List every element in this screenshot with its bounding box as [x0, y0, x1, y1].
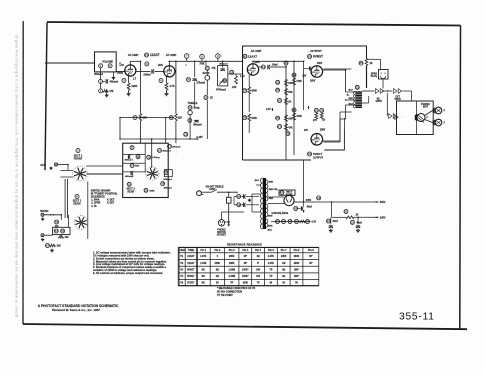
rectifier tube V5	[284, 195, 294, 205]
wire between connector pairs	[384, 90, 393, 92]
frame right border	[459, 26, 462, 330]
svg-text:20mf: 20mf	[333, 221, 338, 223]
rotary switch SW1 rear	[80, 222, 82, 224]
svg-text:6V6GT: 6V6GT	[313, 152, 322, 156]
svg-text:2.4V: 2.4V	[266, 108, 271, 111]
svg-text:40mf: 40mf	[357, 221, 362, 224]
resistor R13 56K	[130, 164, 134, 168]
ground V1b cathode	[166, 92, 168, 94]
T2 cref	[355, 85, 359, 89]
svg-text:40*: 40*	[309, 255, 313, 258]
svg-text:RED: RED	[349, 98, 354, 100]
svg-text:40*: 40*	[244, 262, 248, 265]
svg-text:SOCKET: SOCKET	[217, 235, 227, 237]
T2 secondary wire	[362, 90, 375, 92]
svg-text:400mmf: 400mmf	[125, 175, 133, 178]
volume pot R2	[108, 64, 112, 68]
svg-text:1K: 1K	[210, 98, 213, 100]
hum balance pot	[300, 220, 306, 222]
resistor R57 10K	[46, 244, 50, 248]
svg-text:1. 600A: 1. 600A	[91, 199, 99, 202]
svg-text:400mmf: 400mmf	[172, 145, 180, 148]
coupling capacitor C14 .02mf	[259, 66, 262, 68]
resistor R10 22K in bus	[169, 116, 173, 120]
resistor R35 2K in box edge	[359, 61, 363, 65]
svg-text:220K: 220K	[132, 85, 138, 88]
triode V2a phase inverter	[247, 64, 258, 75]
svg-text:285V: 285V	[320, 130, 326, 132]
svg-text:NC: NC	[202, 276, 206, 278]
svg-text:50K: 50K	[288, 92, 293, 94]
T2 feed bus	[345, 70, 347, 92]
T2 secondary return	[362, 102, 369, 104]
svg-text:280*: 280*	[294, 269, 299, 271]
wire V4 plate to T2	[323, 140, 340, 142]
T1 primary coil	[261, 178, 263, 229]
svg-text:1.04K: 1.04K	[200, 262, 207, 265]
svg-text:355-11: 355-11	[399, 312, 435, 323]
resistor R23 30K	[276, 80, 280, 84]
svg-text:12AX7: 12AX7	[187, 262, 195, 265]
wire treble down	[189, 115, 191, 139]
output tube V3	[311, 66, 323, 78]
svg-text:6.3V: 6.3V	[312, 221, 317, 223]
speaker connector pair 2	[394, 89, 398, 94]
bus line 1	[285, 65, 287, 160]
svg-text:6. All controls at minimum,: 6. All controls at minimum, proper outpu…	[93, 271, 163, 275]
filter cap C20 40mf	[294, 207, 298, 211]
frame top border	[47, 22, 461, 26]
rectifier label box	[279, 190, 295, 195]
resistor R26 10K	[276, 116, 280, 120]
svg-text:220K: 220K	[215, 263, 221, 265]
ground C22	[357, 229, 359, 231]
resistor R29 470K	[292, 73, 296, 77]
feedback wire to phono connector	[386, 93, 388, 116]
trimmer C14 4700mmf	[223, 79, 227, 83]
resistor R15 1.5meg	[147, 155, 151, 159]
arrow 2.4V	[271, 108, 273, 111]
svg-text:30K: 30K	[288, 83, 293, 85]
capacitor C7 on tone row	[184, 54, 189, 59]
cref C19 below	[161, 182, 165, 186]
svg-text:265V: 265V	[310, 81, 316, 83]
cathode resistor R5	[122, 79, 126, 83]
svg-text:15K: 15K	[143, 118, 148, 120]
AC wire with switch	[204, 191, 212, 193]
svg-text:1.07K: 1.07K	[268, 263, 275, 265]
left tone bus with C10 270mmf	[194, 61, 196, 77]
wires tubes to transformer	[324, 68, 352, 70]
wire pair2 to phono box	[403, 90, 412, 92]
svg-text:280K: 280K	[229, 263, 235, 265]
svg-text:40*: 40*	[244, 255, 248, 258]
svg-text:SEQUENCE:: SEQUENCE:	[91, 195, 106, 198]
svg-text:1M: 1M	[282, 263, 285, 265]
svg-text:FRONT: FRONT	[74, 157, 83, 160]
svg-text:Pin 3: Pin 3	[229, 249, 235, 252]
svg-text:BASS: BASS	[203, 72, 210, 75]
output tube V4	[311, 134, 323, 146]
B+ node 345V	[303, 201, 304, 202]
B+ rail 245V	[332, 216, 347, 218]
screen supply bus	[303, 160, 305, 202]
right connector 2	[435, 119, 442, 126]
volume pot R1	[99, 64, 103, 68]
T1 to rectifier wires	[268, 196, 284, 198]
page bottom edge line	[23, 324, 467, 329]
svg-text:V1: V1	[145, 53, 149, 57]
svg-text:1.5V: 1.5V	[240, 76, 245, 78]
svg-text:335V: 335V	[380, 201, 386, 204]
svg-text:Pin 7: Pin 7	[281, 249, 287, 252]
svg-text:5. DET: 5. DET	[107, 203, 115, 205]
plate wire V1b to tone row	[168, 61, 170, 66]
wire input to volume box	[45, 62, 95, 64]
resistor R9 15K in bus	[133, 116, 137, 120]
svg-text:0*: 0*	[257, 263, 259, 265]
cref C16 right top	[158, 148, 162, 152]
svg-text:VOLUME: VOLUME	[102, 60, 113, 64]
T2 primary leads	[346, 91, 356, 93]
svg-text:V2: V2	[243, 54, 247, 58]
svg-text:1.5V: 1.5V	[119, 65, 124, 67]
resistor R31 470K lower	[292, 108, 296, 112]
cathode resistors V3 V4	[314, 108, 318, 112]
svg-text:1K: 1K	[356, 214, 359, 216]
svg-text:270mmf: 270mmf	[197, 82, 206, 84]
svg-text:Pin 1: Pin 1	[200, 249, 206, 252]
svg-text:TP TIE POINT: TP TIE POINT	[217, 294, 233, 297]
svg-text:OUTPUT: OUTPUT	[313, 157, 324, 160]
svg-text:1.07K: 1.07K	[268, 256, 275, 258]
cref C11 top compartment	[130, 146, 134, 150]
coupling cref C28 to V4	[286, 132, 290, 136]
label SECT2 REAR	[127, 182, 131, 186]
svg-text:ITEM: ITEM	[179, 249, 185, 252]
plate wire V2a	[252, 61, 254, 64]
rotary switch SECT2 REAR	[151, 173, 153, 175]
resistor R25 1K	[278, 99, 282, 103]
left page edge rule	[22, 21, 24, 324]
svg-text:AF AMP: AF AMP	[166, 53, 177, 57]
svg-text:©Howard W. Sams & Co., Inc. 19: ©Howard W. Sams & Co., Inc. 1957	[52, 308, 100, 312]
coupling capacitor C6	[145, 62, 149, 66]
wire feedback left down	[119, 118, 121, 139]
svg-text:TREBLE: TREBLE	[188, 102, 198, 105]
svg-text:PHONO: PHONO	[421, 104, 430, 106]
wire to R4	[100, 83, 102, 89]
wires into SW1 front	[60, 170, 73, 172]
AC plug	[197, 191, 202, 196]
svg-text:3. 78: 3. 78	[91, 206, 97, 208]
svg-text:.02mf: .02mf	[272, 65, 278, 67]
svg-text:150K*: 150K*	[242, 269, 249, 271]
svg-text:6V6GT: 6V6GT	[313, 55, 323, 59]
svg-text:TP: TP	[269, 269, 272, 271]
speaker connector pair 1	[376, 89, 380, 94]
ground PHONO jack	[42, 218, 44, 219]
crefs in phono box	[54, 229, 58, 233]
box lower right segment	[324, 130, 344, 150]
filter cap C22 40mf	[350, 220, 354, 224]
svg-text:40*: 40*	[309, 262, 313, 265]
svg-text:4700mmf: 4700mmf	[216, 89, 226, 92]
resistor R4 47K	[99, 89, 103, 93]
bass lower leg	[206, 80, 208, 95]
svg-text:4Ω: 4Ω	[282, 268, 285, 271]
svg-text:1.07K: 1.07K	[200, 256, 207, 258]
frame left border	[45, 23, 47, 171]
svg-text:280K: 280K	[229, 256, 235, 258]
capacitor C12 400mmf	[136, 155, 140, 159]
cref C13 on lower wire	[184, 132, 188, 136]
phono motor symbol	[417, 114, 425, 122]
wire box edge to speaker plug	[367, 58, 381, 60]
power transformer T1 core	[263, 178, 266, 229]
wires from phono box up	[68, 215, 70, 228]
capacitor C9	[216, 54, 221, 59]
motor plug prongs	[414, 115, 416, 120]
vertical bus right of V1b	[175, 61, 177, 114]
coupling wire to box	[228, 73, 243, 75]
svg-text:900mmf: 900mmf	[164, 179, 172, 181]
wire plug to connectors	[382, 79, 384, 89]
wire V1a to V1b	[136, 71, 151, 73]
wire EXT to switch	[67, 165, 69, 171]
svg-text:10K: 10K	[65, 237, 69, 239]
resistor R20 150K bottom	[144, 188, 148, 192]
wire into box left	[175, 143, 177, 154]
svg-text:OUTPUT: OUTPUT	[310, 49, 322, 53]
svg-text:280K: 280K	[294, 263, 300, 265]
svg-text:Pin 2: Pin 2	[214, 249, 220, 252]
svg-text:V4: V4	[308, 152, 312, 156]
svg-text:345V: 345V	[306, 199, 312, 202]
interlock box	[227, 197, 232, 203]
capacitor C3 400mmf	[99, 79, 103, 83]
svg-text:4Ω: 4Ω	[257, 255, 260, 258]
capacitor C14 400mmf	[130, 171, 132, 175]
component box 900mmf	[164, 170, 172, 177]
ground V1a cathode	[128, 92, 130, 94]
svg-text:EXT: EXT	[396, 97, 401, 99]
svg-text:100K: 100K	[243, 283, 249, 285]
svg-text:470K: 470K	[296, 115, 302, 118]
ground EXT jack	[50, 167, 52, 168]
svg-text:1meg: 1meg	[117, 73, 124, 75]
svg-text:V3: V3	[308, 54, 312, 58]
vertical bus into switch	[151, 139, 153, 168]
svg-text:TP: TP	[257, 283, 260, 285]
svg-text:2. SPKR: 2. SPKR	[91, 203, 100, 205]
svg-text:RED: RED	[269, 198, 274, 200]
svg-text:750K: 750K	[199, 64, 205, 66]
svg-text:SPKR: SPKR	[376, 101, 383, 103]
svg-text:12AX7: 12AX7	[150, 53, 160, 57]
svg-text:4Ω: 4Ω	[216, 268, 219, 271]
ground near socket	[227, 222, 230, 225]
cref C19 at rail	[317, 196, 321, 200]
svg-text:400mmf: 400mmf	[163, 149, 171, 152]
ground C16	[330, 229, 332, 231]
triode V1a	[125, 65, 136, 76]
top tone feed line	[183, 60, 243, 62]
svg-text:SPKR: SPKR	[371, 74, 378, 76]
phono input box	[53, 227, 70, 234]
svg-text:6V6GT: 6V6GT	[187, 269, 195, 271]
svg-text:RESISTANCE READINGS: RESISTANCE READINGS	[227, 242, 262, 246]
svg-text:AF AMP: AF AMP	[251, 49, 262, 53]
svg-text:40mf: 40mf	[307, 206, 312, 209]
svg-text:400mmf: 400mmf	[164, 186, 172, 189]
svg-text:4.7K: 4.7K	[170, 85, 175, 88]
speaker plug box	[379, 70, 389, 80]
cref C17 outside right	[168, 144, 172, 148]
svg-text:100V: 100V	[158, 65, 164, 67]
svg-text:56K: 56K	[135, 165, 139, 167]
feedback line	[120, 117, 174, 119]
arrow mid right	[308, 106, 310, 109]
volume control box	[95, 52, 117, 72]
rectifier output wire	[294, 201, 304, 203]
svg-text:2-45V: 2-45V	[197, 136, 204, 139]
ground below R4	[106, 91, 108, 94]
svg-text:Pin 9: Pin 9	[308, 249, 314, 252]
grid resistor R21 180K	[243, 89, 247, 93]
wire volume output to V1a grid	[116, 71, 125, 73]
svg-text:245V: 245V	[380, 216, 386, 219]
ground TUNER jack	[42, 238, 44, 239]
wire SW1 upper to relay box	[86, 165, 123, 167]
phase inverter stage box	[243, 46, 367, 160]
svg-text:HUM BALANCE: HUM BALANCE	[272, 212, 289, 215]
capacitor C13 in trimmer box	[221, 68, 225, 70]
svg-text:1K: 1K	[288, 102, 291, 104]
svg-text:280K: 280K	[294, 256, 300, 258]
svg-text:100K: 100K	[251, 118, 257, 120]
svg-text:300V: 300V	[317, 63, 323, 65]
svg-text:600mmf: 600mmf	[193, 125, 202, 127]
svg-text:1meg: 1meg	[193, 108, 200, 110]
wires motor to connectors	[425, 111, 433, 116]
svg-text:Digital File Copyright © 2012: Digital File Copyright © 2012 Steven-Joh…	[15, 36, 19, 318]
ground between line caps	[248, 199, 250, 200]
lower horizontal wire	[120, 138, 194, 140]
svg-text:47K: 47K	[109, 90, 114, 93]
T1 primary wires	[256, 184, 261, 186]
svg-text:150K: 150K	[150, 190, 156, 192]
right connector 1	[435, 107, 442, 114]
phono box divider	[415, 101, 417, 135]
svg-text:RED: RED	[269, 182, 274, 184]
ground at volume pot	[113, 72, 115, 76]
phono section box	[397, 101, 434, 135]
svg-text:10K: 10K	[288, 119, 293, 121]
cref switch B	[75, 195, 79, 199]
resistor R22 100K	[243, 116, 247, 120]
svg-text:GRN: GRN	[268, 226, 273, 228]
bus line 2	[293, 61, 295, 155]
svg-text:REAR: REAR	[128, 190, 135, 193]
svg-text:47K: 47K	[288, 127, 293, 130]
svg-text:BLK: BLK	[268, 230, 273, 232]
svg-text:280*: 280*	[294, 276, 299, 278]
output transformer T2 core	[355, 91, 362, 108]
phono pickup connector pair	[389, 114, 393, 119]
plate wire V1a	[129, 61, 131, 65]
wire V3 plate to T2	[323, 69, 346, 71]
svg-text:BLU: BLU	[349, 103, 354, 105]
triode V1b	[164, 66, 175, 77]
T1 secondary coils	[266, 180, 268, 201]
svg-text:150K*: 150K*	[242, 276, 249, 278]
svg-text:TP: TP	[230, 283, 233, 285]
svg-text:47K: 47K	[212, 67, 216, 70]
svg-text:Pin 4: Pin 4	[242, 249, 248, 252]
svg-text:4Ω: 4Ω	[216, 275, 219, 278]
svg-text:EXT.: EXT.	[41, 165, 46, 167]
svg-text:400mmf: 400mmf	[219, 62, 227, 65]
svg-text:12AX7: 12AX7	[187, 255, 195, 258]
svg-text:4Ω: 4Ω	[282, 275, 285, 278]
pot wiper stem	[100, 68, 102, 80]
label V4 output	[308, 152, 312, 156]
svg-text:AF AMP: AF AMP	[128, 53, 139, 57]
capacitor C17 600mmf	[188, 118, 192, 122]
V3 grid capacitor	[304, 68, 309, 70]
svg-text:V5: V5	[280, 191, 284, 195]
svg-text:Pin 5: Pin 5	[255, 249, 261, 252]
svg-text:100V: 100V	[255, 62, 261, 64]
filter cap C16 20mf	[327, 219, 331, 223]
svg-text:180K: 180K	[251, 91, 257, 93]
svg-text:Pin 6: Pin 6	[268, 249, 274, 252]
svg-text:NC: NC	[202, 283, 206, 285]
cathode resistor R6 4.7K	[159, 79, 163, 83]
resistor R27 47K	[278, 125, 282, 129]
tube V1 12AX7 label	[145, 53, 149, 57]
resistor R8 750K	[200, 54, 205, 59]
svg-text:PLUG: PLUG	[371, 76, 377, 78]
svg-text:SECT 2: SECT 2	[127, 189, 136, 191]
svg-text:PHONO: PHONO	[40, 211, 48, 213]
resistor R15 1.5K vertical	[230, 70, 234, 74]
svg-text:MOT: MOT	[423, 107, 429, 109]
wire SW1 to relay box	[87, 173, 123, 175]
ground below R57	[51, 249, 53, 251]
svg-text:10K: 10K	[57, 246, 62, 248]
B+ rail 335V	[304, 201, 374, 203]
TUNER input jack	[41, 234, 44, 237]
svg-text:400mmf: 400mmf	[110, 80, 119, 83]
svg-text:BLK: BLK	[255, 180, 260, 182]
svg-text:12AX7: 12AX7	[248, 55, 258, 59]
svg-text:1.5meg: 1.5meg	[152, 157, 160, 159]
mid vertical bus	[165, 118, 167, 144]
svg-text:5Y3GT: 5Y3GT	[187, 283, 195, 285]
junction dots	[119, 62, 121, 64]
capacitor marks below C53	[55, 225, 59, 227]
svg-text:REAR: REAR	[74, 202, 81, 205]
choke resistor R21 1K	[344, 210, 348, 214]
heater rail	[271, 221, 311, 223]
svg-text:Pin 8: Pin 8	[294, 249, 300, 252]
svg-text:4Ω: 4Ω	[377, 98, 380, 101]
line capacitor C62	[237, 195, 241, 199]
wire below interlock	[228, 203, 230, 222]
svg-text:6V6GT: 6V6GT	[187, 276, 195, 278]
